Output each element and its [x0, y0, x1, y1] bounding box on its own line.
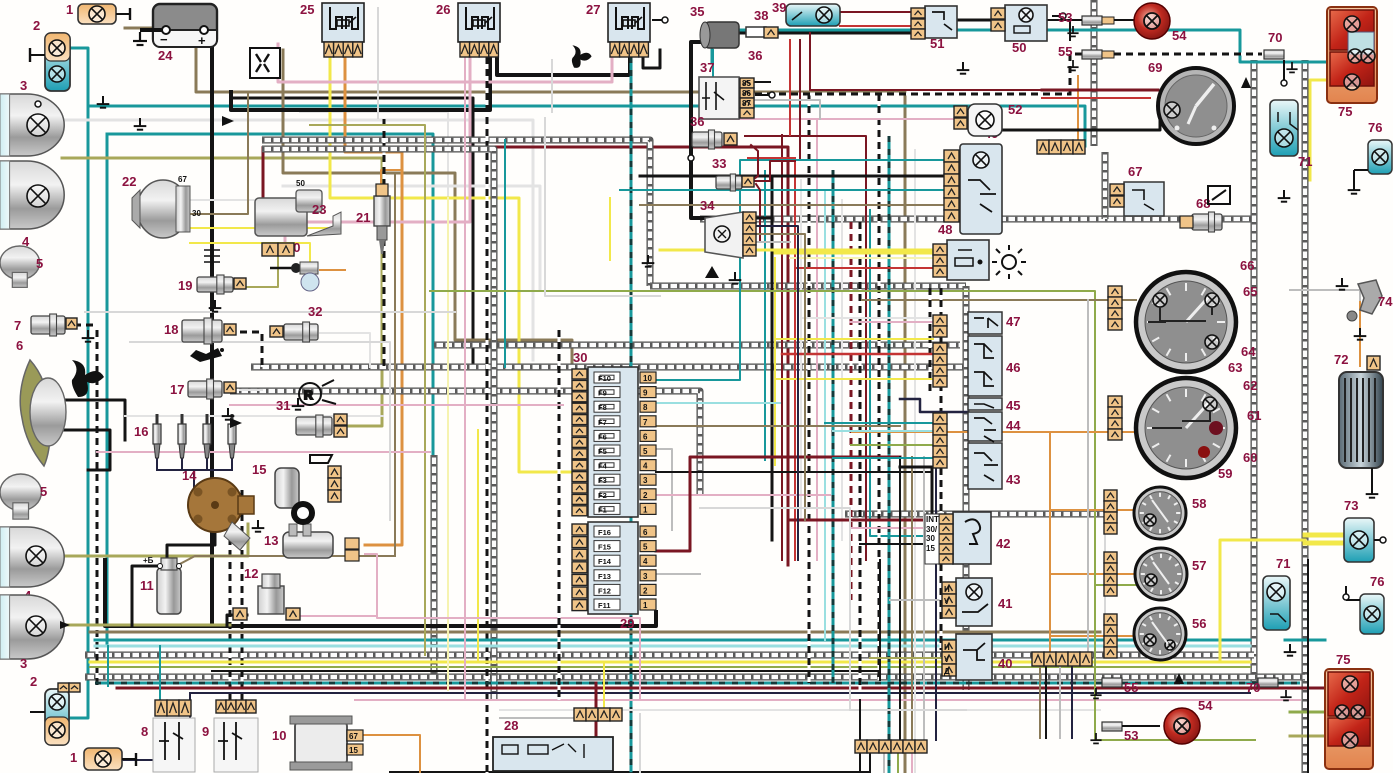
svg-text:Д: Д — [944, 667, 950, 676]
svg-text:2: 2 — [643, 491, 648, 500]
wire — [90, 661, 1250, 664]
svg-text:INT: INT — [926, 515, 939, 524]
switch 41 — [942, 578, 1012, 626]
wire — [850, 321, 933, 323]
wire — [800, 180, 802, 520]
svg-text:33: 33 — [712, 156, 726, 171]
wire — [755, 94, 769, 96]
connector col B — [933, 343, 947, 387]
wire — [745, 136, 866, 560]
sensor 19 — [178, 275, 246, 294]
wire — [757, 217, 772, 220]
svg-text:30: 30 — [573, 350, 587, 365]
wire — [206, 456, 208, 470]
sensor 32 — [270, 304, 322, 342]
wire — [753, 161, 795, 181]
wire — [285, 57, 470, 245]
harness — [262, 140, 650, 286]
harness — [1102, 152, 1109, 219]
wire — [782, 353, 933, 356]
lamp 76b — [1343, 574, 1384, 634]
wire — [860, 543, 953, 545]
wire — [227, 615, 247, 626]
wire — [1077, 76, 1079, 146]
svg-text:70: 70 — [1246, 680, 1260, 695]
wire — [67, 692, 88, 718]
wire — [772, 176, 960, 540]
wire — [824, 190, 826, 640]
svg-text:6: 6 — [643, 432, 648, 441]
wire — [65, 400, 125, 440]
svg-text:37: 37 — [700, 60, 714, 75]
wire — [497, 57, 630, 75]
wire — [757, 226, 798, 560]
svg-text:63: 63 — [1228, 360, 1242, 375]
lamp 54a — [1114, 3, 1187, 43]
sensor 21 — [356, 184, 390, 254]
ground — [292, 398, 305, 410]
svg-text:60: 60 — [1243, 450, 1257, 465]
valve 20 — [270, 240, 319, 291]
svg-text:3: 3 — [643, 572, 648, 581]
wire — [859, 700, 861, 773]
wire — [660, 249, 947, 252]
svg-text:67: 67 — [1128, 164, 1142, 179]
svg-text:F11: F11 — [598, 601, 611, 610]
tachometer 59 — [1136, 378, 1261, 481]
wire — [390, 771, 870, 773]
alternator 22 — [122, 174, 201, 238]
wire — [486, 57, 489, 773]
wire — [859, 222, 862, 690]
wire — [447, 198, 449, 690]
relay 37 — [699, 60, 754, 119]
regulator 10 — [272, 716, 363, 770]
wire — [656, 449, 672, 530]
svg-text:18: 18 — [164, 322, 178, 337]
lamp 52 — [954, 102, 1022, 136]
svg-text:75: 75 — [1336, 652, 1350, 667]
harness — [431, 455, 438, 677]
radio symbol — [299, 380, 336, 405]
svg-text:53: 53 — [1058, 10, 1072, 25]
svg-text:29: 29 — [620, 616, 634, 631]
svg-text:30: 30 — [192, 209, 201, 218]
wire — [394, 173, 396, 556]
wire — [603, 662, 605, 708]
harness — [251, 364, 966, 371]
wire — [755, 54, 1262, 94]
wire — [106, 134, 109, 646]
svg-text:67: 67 — [178, 175, 187, 184]
wire — [212, 670, 880, 672]
wire — [1220, 540, 1305, 662]
wire — [383, 119, 386, 367]
svg-text:51: 51 — [930, 36, 944, 51]
sensor 17 — [170, 379, 236, 399]
svg-text:67: 67 — [349, 732, 358, 741]
svg-text:45: 45 — [1006, 398, 1020, 413]
connector strip E — [1104, 614, 1117, 658]
wire — [283, 50, 572, 368]
svg-text:47: 47 — [1006, 314, 1020, 329]
wiper 15 — [252, 455, 341, 525]
switch 45 — [968, 398, 1020, 413]
starter 23 — [255, 179, 341, 236]
wire — [190, 692, 1250, 694]
wire — [159, 646, 161, 700]
svg-text:38: 38 — [754, 8, 768, 23]
wire — [832, 170, 835, 683]
arrow top right — [1241, 77, 1251, 88]
wire — [1050, 509, 1136, 511]
svg-text:F15: F15 — [598, 543, 611, 552]
wire — [833, 430, 933, 432]
ground — [642, 255, 655, 267]
wire — [640, 204, 960, 206]
wire — [105, 560, 656, 626]
svg-text:44: 44 — [1006, 418, 1021, 433]
svg-text:22: 22 — [122, 174, 136, 189]
svg-text:3: 3 — [20, 656, 27, 671]
svg-text:13: 13 — [264, 533, 278, 548]
svg-text:F8: F8 — [598, 403, 607, 412]
svg-text:46: 46 — [1006, 360, 1020, 375]
svg-text:70: 70 — [1268, 30, 1282, 45]
wire — [774, 258, 776, 465]
wire — [955, 19, 1003, 22]
lamp 71a — [1270, 100, 1312, 169]
wire — [1310, 80, 1327, 180]
distributor 14 — [182, 468, 254, 550]
wire — [95, 682, 1300, 685]
gauge 58 — [1134, 487, 1206, 539]
harness — [1091, 0, 1098, 146]
svg-text:48: 48 — [938, 222, 952, 237]
wire — [363, 735, 420, 773]
wire — [595, 683, 598, 737]
sensor 18 — [164, 318, 236, 344]
wire — [230, 404, 563, 406]
wire — [190, 470, 194, 505]
wire — [852, 431, 1136, 433]
svg-text:50: 50 — [296, 179, 305, 188]
svg-text:30/: 30/ — [926, 525, 938, 534]
connector strip G — [1032, 652, 1092, 666]
wire — [690, 154, 692, 156]
svg-text:10: 10 — [643, 374, 652, 383]
wire — [810, 33, 1042, 90]
wire — [756, 184, 760, 240]
wire — [245, 250, 278, 287]
switch 44 — [968, 412, 1021, 442]
svg-text:6: 6 — [16, 338, 23, 353]
ground — [1336, 278, 1349, 290]
wire — [851, 527, 953, 529]
svg-text:7: 7 — [643, 418, 648, 427]
wire — [851, 444, 933, 446]
svg-text:14: 14 — [182, 468, 197, 483]
wire — [300, 112, 448, 200]
switch 34 — [700, 198, 756, 278]
wire — [630, 57, 633, 773]
wire — [781, 135, 783, 560]
wire — [940, 288, 943, 650]
ground — [729, 272, 742, 284]
fuse box 30/29 — [572, 350, 656, 631]
wire — [310, 125, 425, 655]
wire — [620, 189, 960, 191]
wire — [107, 646, 109, 686]
sensor 33 — [712, 156, 754, 191]
svg-text:43: 43 — [1006, 472, 1020, 487]
svg-text:23: 23 — [312, 202, 326, 217]
wire — [320, 269, 345, 271]
svg-text:39: 39 — [772, 0, 786, 15]
wire — [504, 140, 506, 367]
lamp 1 — [66, 2, 130, 24]
wire — [890, 599, 945, 601]
wire — [67, 48, 88, 692]
connector strip F — [1037, 140, 1085, 154]
wire — [1050, 573, 1136, 575]
wire — [1071, 666, 1073, 738]
svg-text:F6: F6 — [598, 432, 607, 441]
svg-text:12: 12 — [244, 566, 258, 581]
svg-text:8: 8 — [643, 403, 648, 412]
ground — [957, 62, 970, 74]
svg-text:66: 66 — [1240, 258, 1254, 273]
wire — [789, 40, 791, 135]
wire — [1042, 97, 1150, 99]
svg-text:1: 1 — [70, 750, 77, 765]
connector col C — [933, 413, 947, 468]
connector 9 — [202, 700, 258, 772]
svg-text:16: 16 — [134, 424, 148, 439]
svg-text:26: 26 — [436, 2, 450, 17]
wire — [283, 186, 540, 290]
wire — [299, 615, 377, 617]
svg-text:1: 1 — [643, 601, 648, 610]
connector strip B — [1108, 396, 1122, 440]
wire — [751, 145, 758, 181]
battery 24 — [133, 4, 217, 63]
svg-text:32: 32 — [308, 304, 322, 319]
svg-text:F4: F4 — [598, 462, 608, 471]
svg-text:76: 76 — [1370, 574, 1384, 589]
svg-text:3: 3 — [643, 476, 648, 485]
wire — [911, 752, 913, 773]
svg-text:+: + — [198, 33, 206, 48]
svg-text:24: 24 — [158, 48, 173, 63]
wire — [712, 50, 714, 85]
svg-text:21: 21 — [356, 210, 370, 225]
svg-text:85: 85 — [742, 79, 751, 88]
wire — [691, 42, 743, 218]
svg-text:H: H — [944, 585, 950, 594]
wire — [477, 430, 479, 662]
fuse 53a — [1058, 10, 1114, 36]
ground — [1354, 328, 1367, 340]
switch 43 — [968, 443, 1020, 489]
module 28 — [493, 708, 622, 771]
outline — [85, 311, 455, 313]
outline — [639, 714, 641, 773]
wire — [88, 106, 1085, 146]
harness — [85, 652, 1254, 659]
wire — [764, 171, 766, 460]
horn 5b — [0, 474, 47, 519]
wire — [1290, 735, 1325, 738]
wire — [74, 324, 97, 327]
wire — [464, 57, 466, 700]
wire — [899, 457, 901, 740]
wire — [862, 299, 1136, 301]
relay 67 — [1110, 164, 1164, 216]
wire — [231, 456, 233, 470]
svg-text:69: 69 — [1148, 60, 1162, 75]
fan blades — [72, 360, 104, 397]
harness — [1302, 60, 1309, 773]
wire 55a — [1114, 53, 1262, 56]
svg-text:9: 9 — [643, 389, 648, 398]
wire — [788, 519, 953, 522]
svg-text:30: 30 — [926, 534, 935, 543]
coil 11 — [140, 556, 182, 614]
connector col A — [933, 315, 947, 337]
svg-text:36: 36 — [690, 114, 704, 129]
fuse 55b — [1090, 678, 1138, 698]
headlight 3b — [0, 595, 64, 671]
wire — [740, 32, 923, 35]
wire — [62, 158, 382, 426]
switch 46 — [968, 336, 1020, 396]
svg-text:59: 59 — [1218, 466, 1232, 481]
wire — [90, 666, 1250, 668]
svg-text:58: 58 — [1192, 496, 1206, 511]
oil symbol — [190, 348, 224, 362]
wire — [775, 378, 933, 380]
sensor 68 — [1180, 186, 1230, 232]
relay 27 — [586, 2, 668, 57]
lamp 76a — [1348, 120, 1392, 194]
svg-text:2: 2 — [33, 18, 40, 33]
wire — [869, 752, 871, 773]
wire — [656, 471, 930, 473]
svg-text:3: 3 — [20, 78, 27, 93]
resistor 36 — [746, 27, 766, 63]
sensor 36b — [690, 114, 737, 149]
connector strip D — [1104, 552, 1117, 596]
wire — [935, 457, 937, 740]
wire — [181, 456, 183, 470]
defroster 72 — [1334, 352, 1383, 498]
wire 71a — [1281, 60, 1287, 86]
svg-text:15: 15 — [252, 462, 266, 477]
wire — [643, 50, 660, 68]
svg-text:54: 54 — [1198, 698, 1213, 713]
tail cluster 75b — [1325, 652, 1373, 769]
harness — [845, 511, 1105, 518]
svg-text:F5: F5 — [598, 447, 607, 456]
ground — [222, 408, 235, 420]
wire — [240, 332, 262, 367]
wire — [190, 227, 330, 229]
wire — [97, 451, 430, 453]
wire — [656, 494, 830, 496]
connector pair — [262, 243, 294, 256]
wire — [365, 554, 640, 700]
wire — [640, 175, 960, 178]
harness — [650, 283, 966, 290]
svg-text:62: 62 — [1243, 378, 1257, 393]
ground — [97, 96, 110, 108]
wire — [712, 30, 1327, 62]
lamp 2 — [30, 18, 70, 91]
svg-text:5: 5 — [643, 447, 648, 456]
svg-text:76: 76 — [1368, 120, 1382, 135]
outline — [1104, 514, 1106, 655]
arrow — [222, 116, 234, 126]
harness — [85, 674, 1305, 681]
wire — [700, 118, 968, 120]
lamp 73 — [1344, 498, 1386, 562]
svg-text:52: 52 — [1008, 102, 1022, 117]
svg-text:V: V — [944, 597, 950, 606]
svg-text:F1: F1 — [598, 505, 607, 514]
thermo symbol — [204, 246, 220, 266]
svg-text:V: V — [944, 655, 950, 664]
wire — [132, 566, 160, 626]
svg-text:55: 55 — [1058, 44, 1072, 59]
wire — [95, 639, 1250, 642]
svg-text:87: 87 — [742, 99, 751, 108]
svg-text:28: 28 — [504, 718, 518, 733]
svg-text:2: 2 — [643, 586, 648, 595]
connector pair b — [58, 683, 80, 692]
wire — [757, 241, 790, 243]
wire — [117, 687, 1305, 690]
outline — [545, 118, 660, 296]
wire — [1285, 639, 1325, 642]
fuse 70a — [1264, 30, 1298, 72]
wire — [888, 136, 891, 773]
svg-text:74: 74 — [1378, 294, 1393, 309]
svg-text:50: 50 — [1012, 40, 1026, 55]
clock 69 — [1148, 60, 1234, 144]
lamp 54b — [1164, 698, 1213, 744]
wire — [355, 699, 1300, 701]
wire — [176, 556, 395, 566]
wire — [1059, 666, 1061, 738]
lamp 2b — [30, 674, 69, 745]
svg-text:−: − — [160, 32, 168, 47]
sun symbol — [992, 245, 1026, 279]
svg-text:F13: F13 — [598, 572, 611, 581]
harness — [262, 149, 494, 700]
svg-text:54: 54 — [1172, 28, 1187, 43]
wire — [900, 399, 968, 412]
wire — [1290, 290, 1360, 300]
wire — [1050, 635, 1136, 637]
wire — [879, 560, 881, 680]
harness — [700, 216, 1254, 223]
outline — [130, 342, 390, 520]
gauge 57 — [1135, 548, 1206, 600]
wire — [808, 94, 811, 683]
wire — [1305, 541, 1342, 546]
wire — [801, 317, 933, 319]
